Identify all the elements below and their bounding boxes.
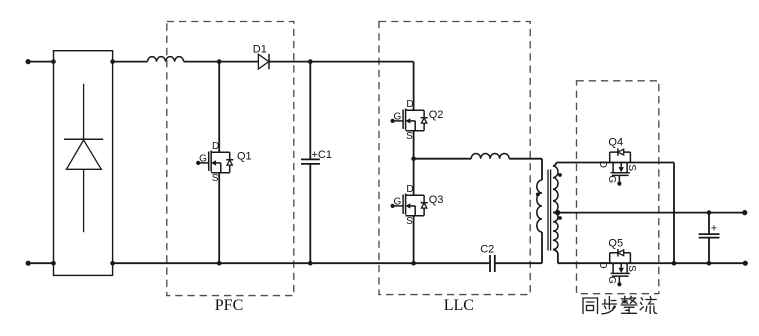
svg-text:D1: D1 <box>253 43 267 55</box>
svg-text:PFC: PFC <box>215 297 243 314</box>
svg-text:Q3: Q3 <box>429 194 444 206</box>
svg-text:+: + <box>711 223 717 235</box>
svg-text:Q4: Q4 <box>608 137 623 149</box>
svg-text:LLC: LLC <box>444 297 474 314</box>
svg-text:Q5: Q5 <box>608 237 623 249</box>
svg-text:+C1: +C1 <box>312 149 333 161</box>
svg-text:Q1: Q1 <box>237 150 252 162</box>
svg-text:C2: C2 <box>480 244 494 256</box>
svg-text:Q2: Q2 <box>429 109 444 121</box>
